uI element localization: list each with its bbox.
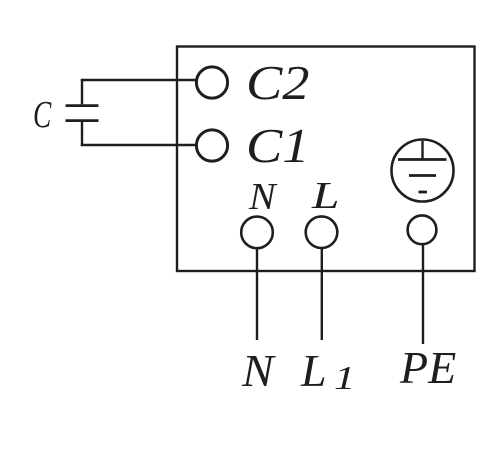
wire N down [256, 248, 258, 340]
svg-text:C: C [33, 94, 52, 136]
terminal L [306, 216, 338, 248]
enclosure box [177, 47, 475, 272]
svg-text:L: L [311, 174, 340, 216]
capacitor C [66, 79, 99, 146]
terminal C2 [196, 67, 227, 98]
svg-text:C2: C2 [246, 56, 309, 110]
svg-text:C1: C1 [246, 119, 309, 173]
terminal PE [408, 215, 437, 244]
svg-text:L: L [300, 345, 327, 396]
svg-text:PE: PE [399, 342, 456, 393]
svg-text:N: N [248, 176, 278, 218]
svg-text:N: N [241, 346, 277, 397]
terminal C1 [196, 130, 227, 161]
wire top capacitor to C2 [81, 79, 197, 81]
wire PE down [422, 244, 424, 344]
earth symbol in circle [392, 140, 454, 202]
wire bottom capacitor to C1 [81, 144, 197, 146]
svg-text:1: 1 [334, 360, 355, 397]
terminal N [241, 217, 273, 249]
wire L down [321, 248, 323, 340]
